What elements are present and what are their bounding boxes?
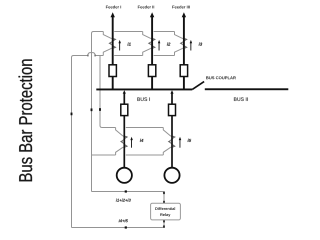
- relay connector tick at line1 junction: [163, 192, 165, 195]
- circuit breaker CB5: [169, 104, 176, 115]
- bus I bar: [96, 89, 192, 91]
- feeder III conductor: [183, 16, 185, 89]
- circuit breaker CB3: [180, 65, 187, 77]
- label i3: [199, 42, 202, 45]
- transformer CT1 secondary winding: [103, 32, 115, 56]
- feeder II conductor: [151, 16, 153, 89]
- load circle 1: [117, 168, 132, 183]
- current arrow i1: [118, 40, 121, 51]
- bus coupler blade: [192, 82, 204, 90]
- label i4: [140, 139, 143, 142]
- feeder I arrow head: [111, 12, 115, 17]
- label BUS II: [234, 97, 248, 101]
- junction dot on line1: [125, 190, 127, 192]
- outgoing circuit 2 conductor: [171, 93, 173, 167]
- transformer CT2 secondary winding: [143, 32, 155, 56]
- outgoing circuit 2 arrow head into bus: [170, 90, 173, 93]
- label i2: [167, 42, 170, 45]
- feeder I conductor: [112, 16, 114, 89]
- wire V2 from bus B down to row-2 bus D: [100, 56, 102, 128]
- junction feet at hop: [87, 55, 88, 57]
- transformer CT5 secondary winding: [163, 128, 175, 156]
- junction dot on V3: [71, 113, 73, 116]
- wire V1 + CT secondary bus A (top): [92, 32, 175, 192]
- label Feeder III: [172, 5, 189, 8]
- junction dot on V1: [91, 108, 93, 111]
- circuit breaker CB1: [109, 65, 116, 77]
- wire line1 i1+i2+i3 from V1 to relay top: [92, 192, 165, 204]
- circuit breaker CB2: [148, 65, 155, 77]
- outgoing circuit 1 arrow head into bus: [123, 90, 126, 93]
- transformer CT3 secondary winding: [175, 32, 187, 56]
- relay connector tick at line2 junction: [163, 225, 165, 227]
- feeder III arrow head: [182, 12, 186, 17]
- current arrow i4: [130, 137, 133, 148]
- circuit breaker CB4: [121, 104, 128, 115]
- label i1+i2+i3: [116, 199, 131, 202]
- wire row-2 CT secondary bus C (bottom): [92, 154, 164, 156]
- feeder II arrow head: [150, 12, 154, 17]
- junction dot on line2: [125, 226, 127, 228]
- label Feeder II: [138, 5, 154, 8]
- bus II bar: [205, 88, 288, 90]
- current arrow i2: [158, 40, 161, 51]
- current arrow i3: [190, 40, 193, 51]
- junction dot on V2: [99, 108, 101, 111]
- differential relay box: [151, 203, 181, 220]
- wire line2 i4+i5 from relay bottom to V3: [72, 220, 165, 228]
- label i4+i5: [119, 219, 128, 222]
- current arrow i5: [179, 137, 182, 148]
- relay connector tick at relay top: [163, 201, 165, 204]
- title Bus Bar Protection: [19, 59, 33, 181]
- relay connector tick at relay bottom: [163, 220, 165, 223]
- wire row-2 CT secondary bus D (top): [102, 127, 163, 129]
- transformer CT4 secondary winding: [116, 128, 128, 156]
- label BUS I: [137, 97, 149, 101]
- wire V3 + CT secondary bus B (bottom, hop over V1): [72, 53, 175, 228]
- outgoing circuit 1 conductor: [123, 93, 125, 167]
- label Feeder I: [106, 5, 121, 8]
- label BUS COUPLAR: [206, 76, 236, 79]
- label i5: [188, 139, 192, 142]
- label i1: [127, 42, 130, 45]
- label Differential Relay: [155, 207, 175, 210]
- load circle 2: [164, 168, 179, 183]
